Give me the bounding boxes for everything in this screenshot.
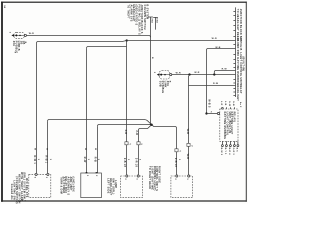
junction J2 dot bbox=[150, 124, 153, 127]
svg-text:RELAY: RELAY bbox=[239, 84, 242, 94]
junction J3 dot bbox=[188, 73, 190, 75]
wire labels on J2 branches bbox=[124, 130, 138, 136]
junction block solid box bbox=[81, 173, 102, 198]
svg-text:2-R 18: 2-R 18 bbox=[135, 158, 138, 168]
svg-text:R-B 1: R-B 1 bbox=[45, 156, 48, 164]
left headlight pin numbers bbox=[124, 178, 137, 180]
svg-text:C: C bbox=[130, 144, 132, 146]
svg-text:W/O DRL SYS: W/O DRL SYS bbox=[25, 178, 28, 198]
svg-text:C: C bbox=[180, 151, 182, 153]
DRL unit top pin labels bbox=[220, 101, 242, 108]
svg-text:W-B: W-B bbox=[215, 47, 220, 49]
svg-text:W-R: W-R bbox=[194, 72, 199, 74]
svg-text:30A: 30A bbox=[151, 18, 154, 23]
wire A: J4 up to bus bbox=[214, 71, 235, 75]
FL1 name label bbox=[12, 41, 26, 54]
wire: vertical x=86.5 to junction block pin 1 bbox=[86, 48, 88, 173]
wire: FL2 output to right bus bbox=[172, 74, 236, 76]
wire: vertical trunk x=151 bbox=[150, 17, 152, 125]
connector C-72 bbox=[175, 149, 178, 175]
fuse stub x=155.5 bbox=[153, 17, 158, 29]
wire labels above junction block bbox=[83, 148, 99, 163]
svg-text:SWITCH B: SWITCH B bbox=[239, 36, 242, 51]
page margin figure number bbox=[3, 5, 6, 9]
lighting switch pin numbers bbox=[33, 177, 47, 179]
svg-text:FUSE NO.1) RELAY S: FUSE NO.1) RELAY S bbox=[137, 5, 140, 35]
junction block name label bbox=[59, 177, 74, 196]
svg-text:4a 2: 4a 2 bbox=[239, 102, 242, 108]
svg-text:RIGHT SIDE: RIGHT SIDE bbox=[158, 166, 161, 183]
left headlight dashed box bbox=[121, 176, 143, 198]
off-page tick on trunk bbox=[148, 16, 153, 18]
wire labels W-R on FL2 output bbox=[176, 72, 200, 74]
wire: J2 left branch to connector C-60 bbox=[139, 125, 152, 142]
junction J5 dot bbox=[205, 112, 207, 114]
DRL control unit dashed box bbox=[220, 109, 238, 141]
svg-text:G-W: G-W bbox=[228, 101, 230, 107]
wire: J1 to right bus bbox=[127, 40, 236, 42]
svg-text:G-B: G-B bbox=[232, 101, 234, 106]
svg-text:W-B: W-B bbox=[186, 129, 189, 135]
svg-text:HEADLIGHT: HEADLIGHT bbox=[236, 84, 239, 101]
svg-text:R-W: R-W bbox=[213, 83, 219, 85]
connector C-60 label bbox=[141, 144, 143, 146]
wire labels above right headlight bbox=[174, 158, 180, 168]
wire: vertical x=36 to lighting switch bbox=[36, 43, 38, 173]
svg-text:LAMP: LAMP bbox=[114, 180, 117, 188]
wire y=40 label near bus bbox=[212, 38, 217, 40]
svg-text:W-R: W-R bbox=[29, 33, 34, 35]
wire W1: FL1 output to trunk x=151 bbox=[27, 36, 151, 38]
svg-text:TO DAYTIME RUNNING: TO DAYTIME RUNNING bbox=[236, 52, 239, 85]
lighting switch dashed box bbox=[29, 174, 51, 197]
svg-text:94: 94 bbox=[3, 5, 6, 9]
wire: vertical x=47.9 to lighting switch bbox=[47, 121, 49, 173]
wire W3: corner x=86.5 T-join x=126.8 bbox=[87, 47, 127, 49]
wire: J5 to DRL control unit pin bbox=[207, 113, 218, 115]
svg-text:W-B 5: W-B 5 bbox=[207, 99, 210, 108]
svg-text:HEADLIGHT: HEADLIGHT bbox=[132, 5, 135, 22]
svg-text:W-R: W-R bbox=[176, 72, 181, 74]
connector C-62 label bbox=[130, 144, 132, 146]
connector C-60 bbox=[137, 142, 140, 175]
wire y=48.9 label bbox=[215, 47, 220, 49]
wire A label bbox=[222, 69, 228, 71]
svg-text:30A: 30A bbox=[166, 81, 169, 86]
DRL unit bottom pin labels bbox=[220, 148, 238, 156]
DRL unit left pin circle bbox=[217, 112, 219, 114]
wire: J3 down vertical x=188.7 bbox=[189, 75, 190, 144]
bus destination labels bbox=[236, 9, 244, 101]
svg-text:JUNCTION BLOCK S: JUNCTION BLOCK S bbox=[140, 5, 143, 34]
svg-text:2-B 18: 2-B 18 bbox=[174, 158, 177, 168]
svg-text:TO THEFT: TO THEFT bbox=[127, 5, 130, 20]
pin number 2 near J5 bbox=[211, 112, 213, 114]
page border frame bbox=[1, 2, 247, 202]
lighting switch pin circles bbox=[35, 173, 49, 175]
connector C-72 label bbox=[180, 151, 182, 153]
wire C: to bus at y=85.4 bbox=[189, 85, 236, 87]
svg-text:C: C bbox=[141, 144, 143, 146]
svg-text:(LHD) BOX: (LHD) BOX bbox=[71, 177, 74, 193]
svg-text:R-B: R-B bbox=[93, 157, 96, 162]
wire: vertical from J1 down to connector C-62 bbox=[126, 41, 128, 142]
svg-text:R-W 1: R-W 1 bbox=[33, 156, 36, 165]
svg-text:C: C bbox=[192, 145, 194, 147]
DRL unit top pin stubs bbox=[222, 107, 235, 109]
right headlight dashed box bbox=[171, 176, 193, 198]
wire labels above left headlight bbox=[123, 158, 140, 168]
FL1 pin label bbox=[8, 32, 10, 34]
svg-text:W-R: W-R bbox=[212, 38, 217, 40]
svg-text:B: B bbox=[168, 81, 170, 83]
svg-text:B SYSTEM: B SYSTEM bbox=[146, 5, 149, 20]
svg-text:2-R: 2-R bbox=[135, 130, 138, 135]
wire labels above lighting switch bbox=[33, 148, 51, 164]
DRL unit bottom pin stubs bbox=[221, 141, 238, 146]
junction block pin numbers bbox=[86, 175, 97, 177]
wire: vertical x=97.5 to junction block pin 2 bbox=[97, 126, 99, 173]
svg-text:ALARM SYS: ALARM SYS bbox=[129, 5, 132, 22]
junction J1 dot bbox=[126, 39, 128, 41]
junction J4 dot bbox=[213, 73, 215, 75]
svg-text:B: B bbox=[151, 57, 153, 59]
wire: J2 right branch to connector C-72 bbox=[152, 125, 177, 149]
right headlight pin numbers bbox=[174, 178, 188, 180]
wire W4: corner x=47.9 elbow to junction J2 bbox=[48, 120, 152, 125]
svg-text:B-W 2: B-W 2 bbox=[220, 148, 222, 156]
wire label W-B on x=206.5 bbox=[207, 99, 210, 108]
svg-text:B: B bbox=[24, 42, 26, 44]
right headlight pin circles bbox=[176, 175, 190, 177]
svg-text:LIGHT CONTROL UNIT: LIGHT CONTROL UNIT bbox=[239, 52, 242, 84]
bus pin ticks bbox=[233, 12, 235, 96]
stub labels bbox=[151, 18, 159, 23]
svg-text:2-B: 2-B bbox=[124, 130, 127, 135]
svg-text:(DEDICATED S: (DEDICATED S bbox=[135, 5, 138, 26]
FL2 name label bbox=[159, 81, 171, 94]
junction block pin ticks bbox=[86, 172, 98, 174]
svg-text:RELAY): RELAY) bbox=[233, 112, 236, 123]
svg-text:R-W: R-W bbox=[83, 157, 86, 163]
DRL unit name bbox=[223, 112, 236, 140]
svg-text:L-R: L-R bbox=[220, 101, 222, 106]
svg-text:15A: 15A bbox=[156, 18, 159, 23]
left headlight pin circles bbox=[126, 175, 140, 177]
destination text block top-center bbox=[127, 5, 149, 35]
wire C label bbox=[213, 83, 219, 85]
right bus (off-page junction) bbox=[235, 7, 237, 97]
svg-text:(BUILT-IN): (BUILT-IN) bbox=[241, 56, 244, 71]
svg-text:B 5: B 5 bbox=[236, 148, 238, 153]
svg-text:R-W: R-W bbox=[222, 69, 228, 71]
fusible link FL1 bbox=[11, 32, 26, 38]
wire W2: corner x=36 to junction J1 bbox=[37, 41, 127, 44]
svg-text:G-R 3: G-R 3 bbox=[232, 148, 234, 156]
wire labels W-B on x=188.7 bbox=[186, 129, 189, 160]
lighting switch name label bbox=[10, 172, 28, 204]
wire label W-R at FL1 output bbox=[29, 33, 34, 35]
svg-text:COLUMN SWITCH: COLUMN SWITCH bbox=[143, 5, 146, 30]
left headlight name label bbox=[107, 178, 117, 195]
trunk wire label B bbox=[151, 57, 153, 59]
svg-text:B-Y 1: B-Y 1 bbox=[224, 148, 226, 156]
wire W5: corner x=97.5 to junction J2 bbox=[98, 125, 152, 127]
connector C-62 bbox=[125, 142, 128, 175]
connector C-71 label bbox=[192, 145, 194, 147]
right headlight name label (center text block) bbox=[148, 166, 161, 191]
connector C-71 bbox=[187, 143, 190, 174]
svg-text:B-R 4: B-R 4 bbox=[228, 148, 231, 156]
svg-text:L-B: L-B bbox=[224, 101, 226, 106]
svg-text:2-B 18: 2-B 18 bbox=[123, 158, 126, 168]
wire: corner x=206.5 from bus wire y=48.9 bbox=[207, 49, 236, 114]
FL2 pin label bbox=[153, 72, 155, 74]
fusible link FL2 bbox=[157, 71, 172, 80]
svg-text:W-B: W-B bbox=[186, 154, 189, 160]
